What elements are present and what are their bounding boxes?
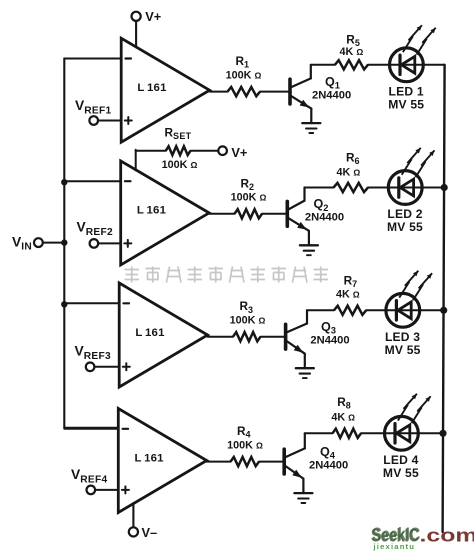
op-amp U2 L161 [121, 161, 209, 265]
watermark seekic logo [371, 523, 474, 551]
resistor R3 100K [233, 332, 261, 341]
svg-text:L 161: L 161 [137, 205, 167, 217]
label Q4 [320, 445, 336, 461]
wire Q2 collector to R6 [305, 187, 334, 189]
op-amp U1 L161 [121, 38, 209, 142]
label R6 [346, 150, 360, 166]
wire U4 output to R4 [207, 461, 231, 463]
transistor Q1 2N4400 [290, 65, 311, 123]
svg-text:4K Ω: 4K Ω [340, 46, 364, 58]
svg-text:L 161: L 161 [137, 82, 167, 94]
resistor RSET 100K [166, 146, 191, 155]
transistor Q4 2N4400 [284, 433, 305, 493]
label R3 [240, 299, 254, 315]
ground Q4 emitter [294, 493, 312, 503]
terminal VREF1 [89, 116, 98, 125]
resistor R1 100K [228, 87, 261, 96]
wire bus to U2 inverting input [64, 180, 120, 182]
LED3 light arrows [399, 271, 432, 300]
wire VREF4 to U4 non-inverting input [95, 489, 118, 491]
label R8 [337, 395, 351, 411]
value R4 100K ohm [227, 439, 263, 451]
value R1 100K ohm [226, 69, 262, 81]
resistor R7 4K [334, 306, 366, 315]
value R8 4K ohm [331, 412, 355, 424]
svg-text:100K Ω: 100K Ω [227, 439, 263, 451]
resistor R2 100K [235, 209, 263, 218]
junction VIN on bus [61, 239, 67, 245]
wire R3 to Q3 base [261, 336, 286, 338]
wire V+ to U1 [135, 21, 137, 47]
label VREF1 [75, 98, 111, 116]
LED4 light arrows [398, 394, 431, 423]
svg-text:LED 2: LED 2 [387, 207, 422, 221]
terminal V+ supply (U2) [218, 146, 227, 155]
svg-text:MV 55: MV 55 [383, 466, 419, 480]
wire R5 to LED1 to right bus [368, 64, 445, 66]
resistor R5 4K [335, 60, 368, 69]
value Q4 2N4400 [309, 459, 348, 471]
svg-text:4K Ω: 4K Ω [331, 412, 355, 424]
svg-text:2N4400: 2N4400 [309, 459, 348, 471]
value RSET 100K ohm [162, 159, 198, 171]
wire Q3 collector to R7 [307, 309, 334, 311]
label Q1 [325, 75, 340, 91]
wire bus to U4 inverting input [64, 428, 118, 430]
label VREF4 [71, 467, 107, 485]
value MV 55 [388, 97, 424, 111]
wire R8 to LED4 to right bus [361, 432, 445, 434]
label R5 [346, 32, 360, 48]
label R1 [236, 54, 250, 70]
wire U4 to V- terminal [132, 503, 134, 527]
LED2 MV55 [388, 171, 422, 205]
wire R4 to Q4 base [259, 461, 284, 463]
wire U2 output to R2 [209, 213, 234, 215]
svg-text:LED 1: LED 1 [389, 84, 424, 98]
wire VIN input bus (left vertical rail) [63, 58, 65, 427]
wire U1 output to R1 [210, 91, 228, 93]
wire R1 to Q1 base [260, 91, 290, 93]
junction bus to op-amp U3 inverting input [61, 301, 67, 307]
ground Q2 emitter [300, 245, 318, 255]
svg-text:jiexiantu: jiexiantu [373, 542, 416, 551]
wire U3 output to R3 [208, 336, 233, 338]
wire VIN to bus [43, 242, 65, 244]
svg-text:MV 55: MV 55 [388, 97, 424, 111]
svg-text:2N4400: 2N4400 [305, 212, 344, 224]
label R4 [237, 424, 251, 440]
terminal V- supply [129, 527, 138, 536]
label LED 2 [387, 207, 422, 221]
value MV 55 [383, 466, 419, 480]
svg-text:2N4400: 2N4400 [312, 89, 351, 101]
resistor R4 100K [231, 457, 260, 466]
wire RSET to U2 supply pin [136, 150, 166, 171]
junction bus to op-amp U2 inverting input [61, 179, 67, 185]
label V+ [145, 9, 161, 24]
LED3 MV55 [386, 293, 420, 327]
svg-text:V–: V– [142, 525, 158, 540]
LED4 MV55 [385, 416, 419, 450]
wire bus to U4 inverting input [64, 427, 118, 429]
transistor Q3 2N4400 [286, 310, 307, 368]
svg-text:100K Ω: 100K Ω [162, 159, 198, 171]
svg-text:100K Ω: 100K Ω [226, 69, 262, 81]
LED1 light arrows [403, 25, 436, 54]
wire RSET to V+ terminal [191, 150, 219, 152]
value Q3 2N4400 [310, 335, 349, 347]
wire LED output bus (right vertical rail) [443, 65, 445, 532]
ground Q3 emitter [296, 368, 314, 378]
label Q2 [314, 197, 329, 213]
value R7 4K ohm [336, 288, 360, 300]
wire Q4 collector to R8 [305, 432, 333, 434]
label VREF2 [77, 220, 113, 238]
wire R6 to LED2 to right bus [368, 187, 445, 189]
value MV 55 [385, 343, 421, 357]
resistor R8 4K [333, 429, 362, 438]
label VIN [12, 235, 32, 253]
terminal VIN [34, 238, 43, 247]
svg-text:100K Ω: 100K Ω [230, 315, 266, 327]
svg-text:LED 3: LED 3 [385, 330, 420, 344]
watermark chinese text [125, 267, 329, 283]
wire R7 to LED3 to right bus [366, 309, 445, 311]
label RSET [165, 126, 192, 142]
svg-text:4K Ω: 4K Ω [337, 167, 361, 179]
wire Q1 collector to R5 [311, 64, 335, 66]
svg-text:4K Ω: 4K Ω [336, 288, 360, 300]
svg-text:L 161: L 161 [135, 327, 165, 339]
op-amp U4 L161 [118, 409, 206, 513]
label V- [142, 525, 158, 540]
terminal VREF4 [87, 486, 96, 495]
value R3 100K ohm [230, 315, 266, 327]
value R6 4K ohm [337, 167, 361, 179]
wire VREF2 to U2 non-inverting input [98, 242, 121, 244]
junction LED4 on right bus [439, 430, 446, 437]
LED2 light arrows [402, 148, 435, 177]
svg-text:.com: .com [420, 525, 474, 546]
svg-text:MV 55: MV 55 [385, 343, 421, 357]
svg-text:MV 55: MV 55 [387, 220, 423, 234]
value Q2 2N4400 [305, 212, 344, 224]
value Q1 2N4400 [312, 89, 351, 101]
LED1 MV55 [390, 48, 424, 82]
label LED 1 [389, 84, 424, 98]
resistor R6 4K [334, 183, 369, 192]
terminal V+ supply (U1) [132, 12, 141, 21]
svg-text:2N4400: 2N4400 [310, 335, 349, 347]
junction LED2 on right bus [441, 184, 448, 191]
svg-text:V+: V+ [145, 9, 161, 24]
value R5 4K ohm [340, 46, 364, 58]
wire VREF1 to U1 non-inverting input [98, 120, 121, 122]
svg-text:LED 4: LED 4 [383, 453, 418, 467]
label LED 4 [383, 453, 418, 467]
svg-text:100K Ω: 100K Ω [231, 192, 267, 204]
value MV 55 [387, 220, 423, 234]
wire bus to U1 inverting input [64, 58, 121, 60]
junction LED3 on right bus [440, 307, 447, 314]
label LED 3 [385, 330, 420, 344]
value R2 100K ohm [231, 192, 267, 204]
transistor Q2 2N4400 [287, 188, 309, 246]
wire bus to U3 inverting input [64, 302, 119, 304]
svg-text:L 161: L 161 [134, 452, 164, 464]
op-amp U3 L161 [119, 283, 207, 387]
label Q3 [321, 320, 336, 336]
label R2 [241, 176, 255, 192]
wire VREF3 to U3 non-inverting input [94, 366, 119, 368]
wire R2 to Q2 base [262, 213, 287, 215]
label R7 [344, 274, 358, 290]
terminal VREF2 [90, 239, 99, 248]
svg-text:V+: V+ [231, 145, 247, 160]
label V+ [231, 145, 247, 160]
label VREF3 [75, 344, 111, 362]
terminal VREF3 [86, 363, 95, 372]
ground Q1 emitter [302, 123, 320, 133]
